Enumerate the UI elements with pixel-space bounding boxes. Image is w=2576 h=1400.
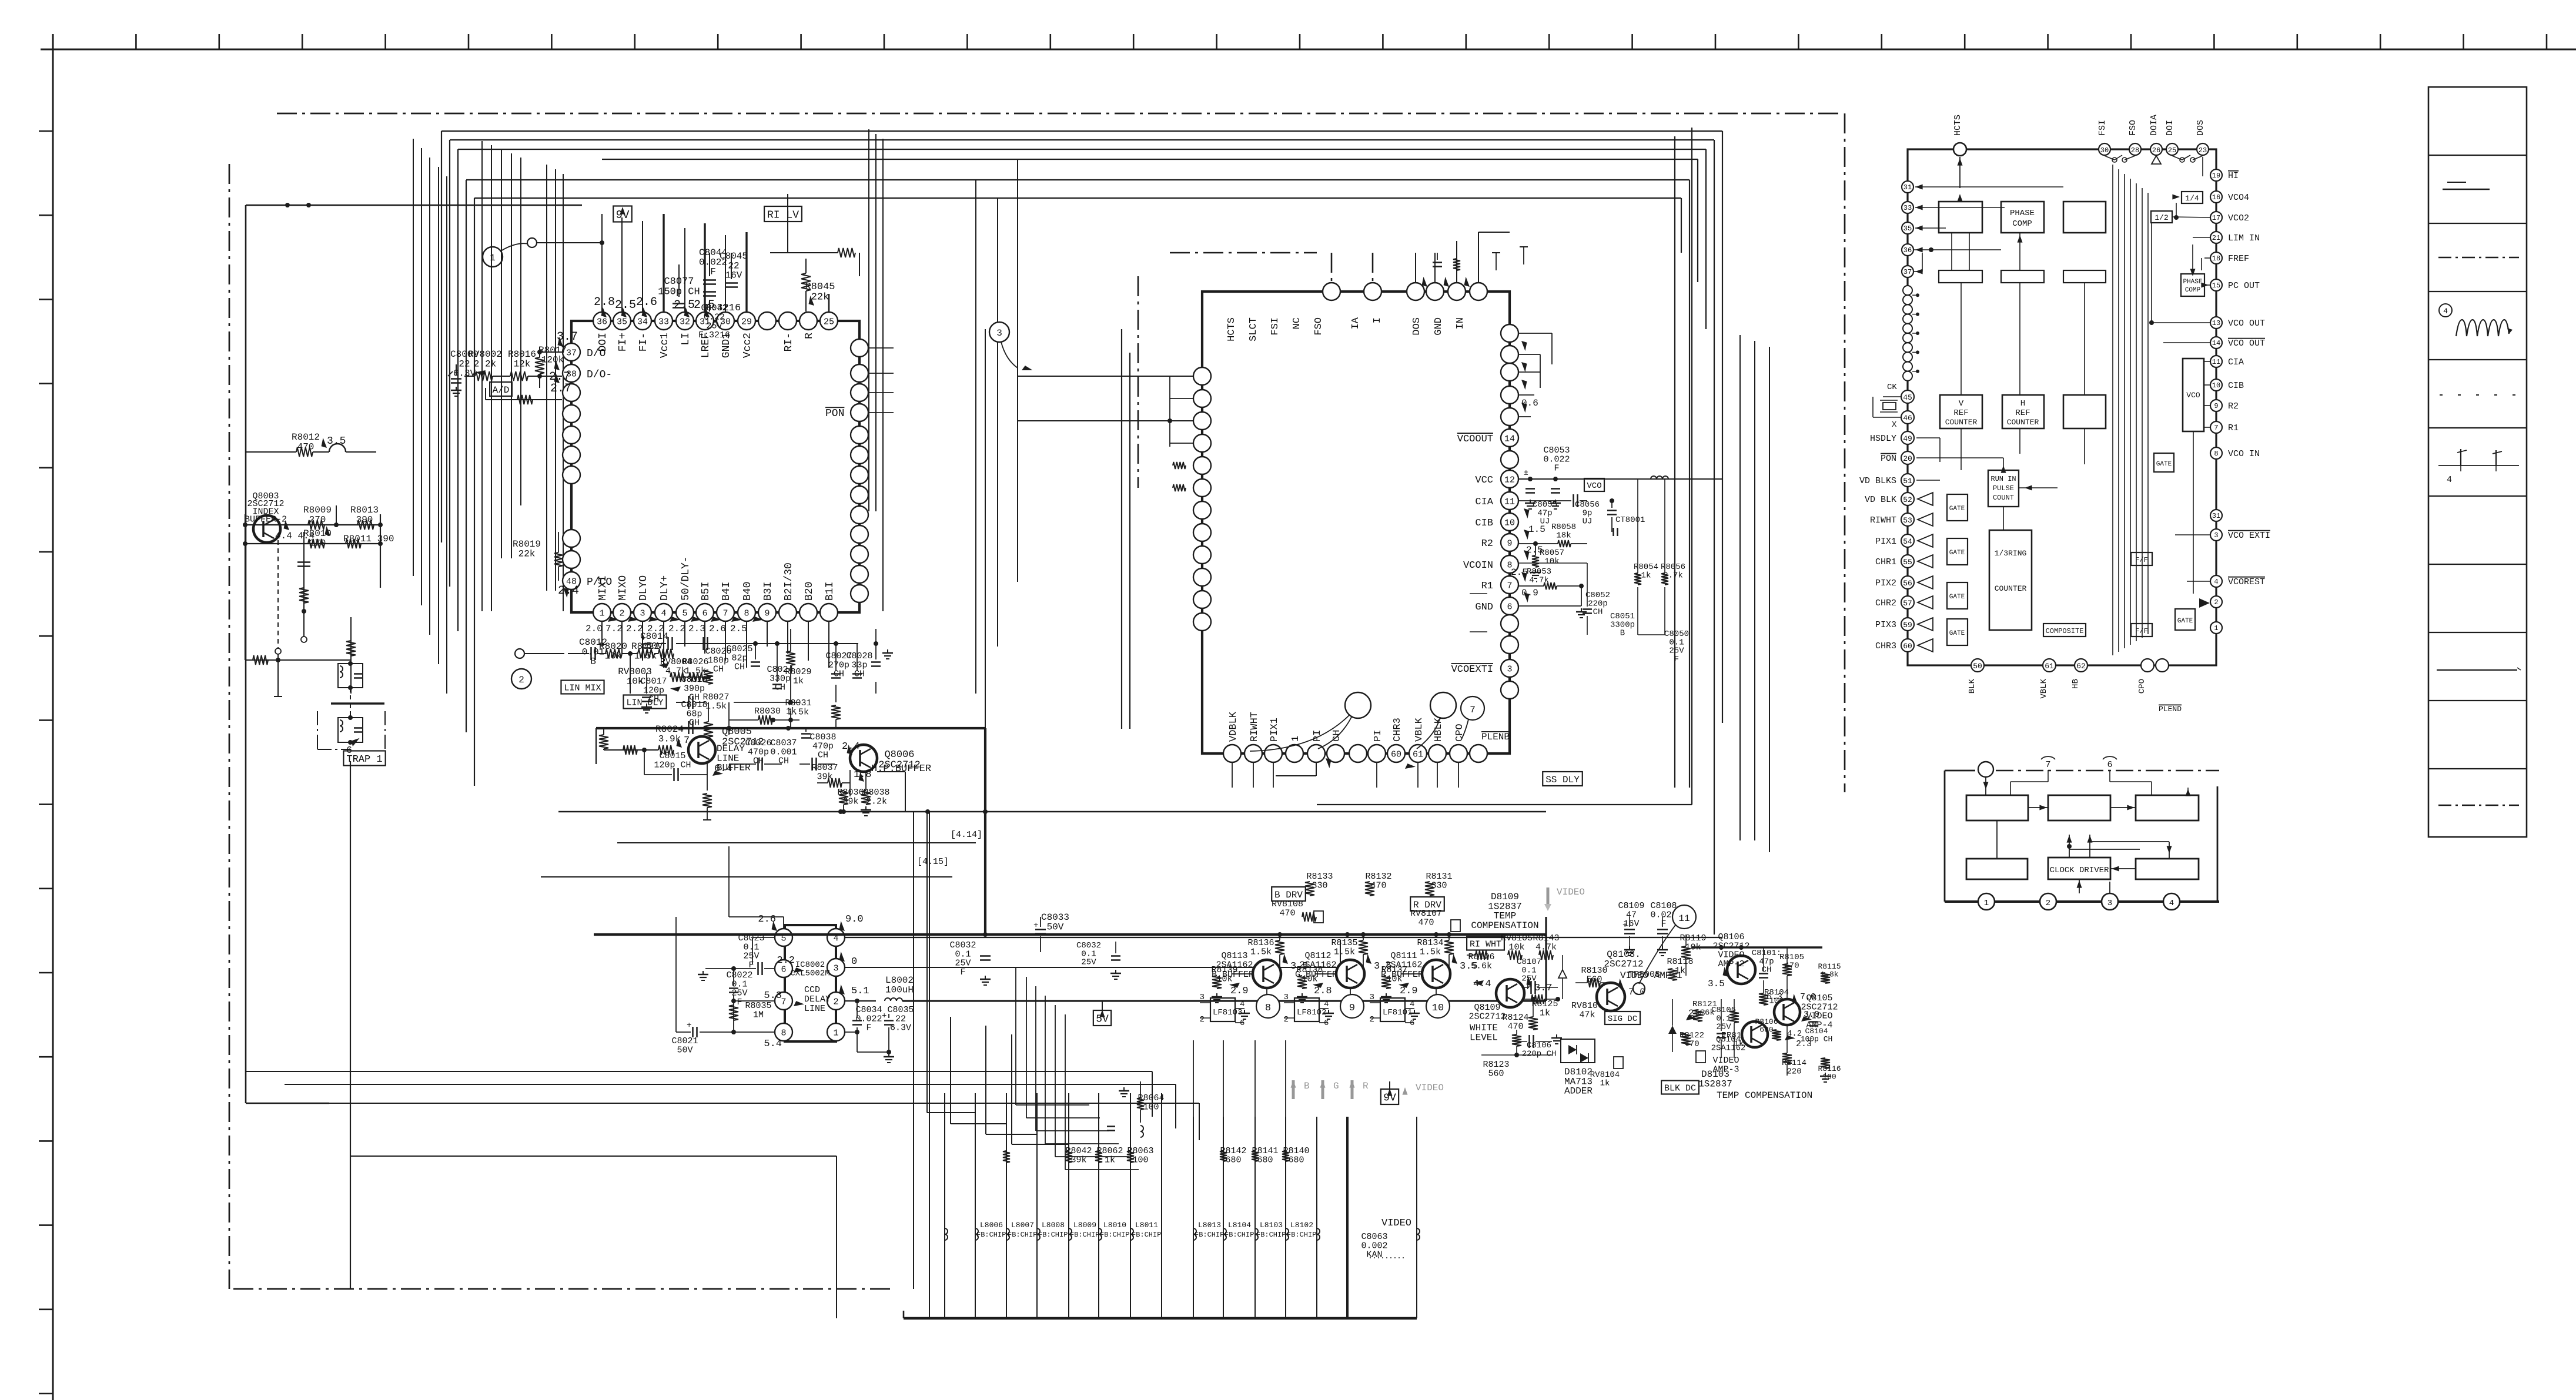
wire mid vertical bundle [976, 159, 1018, 728]
svg-text:PLEND: PLEND [2159, 705, 2182, 714]
svg-text:RIWHT: RIWHT [1870, 515, 1896, 525]
svg-text:21: 21 [2212, 234, 2220, 242]
svg-text:10k: 10k [1544, 557, 1559, 566]
svg-text:6: 6 [1240, 1019, 1244, 1028]
svg-text:L8010: L8010 [1103, 1221, 1126, 1230]
connector 1 circle [483, 238, 604, 267]
resistor R8121 [1692, 1000, 1717, 1021]
capacitor C8062 [1076, 941, 1121, 979]
svg-text:7: 7 [722, 609, 728, 619]
svg-text:Vcc1: Vcc1 [659, 333, 671, 358]
svg-text:R2: R2 [1481, 538, 1493, 550]
svg-text:7: 7 [1470, 705, 1476, 715]
svg-text:COUNTER: COUNTER [2007, 418, 2039, 427]
filter LF8101 [1370, 993, 1420, 1028]
svg-text:33: 33 [658, 317, 669, 327]
svg-text:13: 13 [2212, 319, 2220, 327]
svg-text:23: 23 [2199, 146, 2207, 155]
svg-text:VDBLK: VDBLK [1228, 711, 1239, 742]
svg-text:GATE: GATE [1949, 505, 1965, 513]
IC U8001 bottom pin labels [597, 556, 836, 601]
transistor Q8005 [688, 736, 715, 763]
resistor R8139 [1211, 965, 1237, 1003]
svg-text:8: 8 [781, 1029, 786, 1039]
svg-text:PLENB: PLENB [1481, 732, 1510, 742]
svg-text:30: 30 [2100, 146, 2109, 155]
capacitor C8024 [767, 644, 793, 693]
label B DRV [1272, 887, 1323, 923]
resistor R8130 [1575, 966, 1614, 987]
svg-text:47k: 47k [1579, 1010, 1595, 1020]
svg-text:120k: 120k [541, 354, 564, 365]
label 5V mid [1093, 1001, 1111, 1026]
block COMPOSITE [2043, 624, 2086, 637]
wire mid connects [976, 647, 1202, 694]
svg-text:GATE: GATE [2177, 618, 2193, 625]
resistor R8045 [801, 259, 835, 312]
svg-text:G: G [1333, 1081, 1339, 1091]
transistor Q8109 [1473, 976, 1553, 1007]
wire extra right of IC1 [869, 129, 883, 611]
resistor R8119 [1680, 933, 1706, 976]
block FF2 [2131, 624, 2152, 637]
svg-text:53: 53 [1903, 516, 1912, 525]
svg-text:PC OUT: PC OUT [2228, 281, 2260, 291]
IC U8002 top pin labels [1226, 317, 1466, 341]
capacitor C8038 [799, 728, 837, 771]
svg-text:R1: R1 [2228, 423, 2239, 433]
svg-text:VBLK: VBLK [1414, 717, 1425, 742]
resistor R8053b [1518, 567, 1587, 618]
wire Q8003 rails [243, 505, 383, 660]
transistor Q8003 [253, 515, 280, 542]
resistor R8020 [599, 641, 627, 661]
svg-text:3: 3 [2107, 899, 2112, 908]
svg-text:VCO: VCO [2186, 391, 2200, 400]
svg-text:RUN IN: RUN IN [1990, 475, 2016, 483]
svg-text:8: 8 [744, 609, 749, 619]
blockdiag pin HCTS [1953, 115, 1966, 188]
svg-text:4: 4 [1240, 1000, 1244, 1009]
resistor R8063 [1127, 1146, 1154, 1165]
svg-text:TEMP COMPENSATION: TEMP COMPENSATION [1717, 1090, 1812, 1101]
svg-text:12: 12 [1504, 475, 1515, 485]
svg-text:2: 2 [1284, 1015, 1289, 1024]
svg-text:FB:CHIP: FB:CHIP [1195, 1231, 1224, 1239]
capacitor C8026 [729, 738, 782, 771]
svg-text:CHR3: CHR3 [1392, 718, 1403, 742]
clockdiag box TR [2136, 795, 2199, 820]
svg-text:CHR2: CHR2 [1875, 598, 1896, 608]
transistor Q8104b [1711, 1021, 1768, 1074]
svg-text:C8045: C8045 [720, 251, 748, 262]
IC8002 pins left [775, 929, 792, 1041]
svg-text:4: 4 [2214, 578, 2218, 586]
svg-text:F:3216: F:3216 [698, 330, 730, 340]
svg-text:B40: B40 [742, 582, 754, 601]
resistor R8061 area [1003, 1087, 1129, 1163]
svg-text:VCO EXTI: VCO EXTI [2228, 531, 2270, 541]
svg-text:+: + [641, 634, 646, 644]
resistor R8024 [655, 724, 702, 755]
svg-text:22: 22 [728, 260, 739, 271]
resistor R8131 [1425, 872, 1453, 896]
svg-text:7.0: 7.0 [1628, 987, 1645, 997]
svg-text:2.6: 2.6 [636, 296, 657, 309]
label VCO box [1584, 478, 1604, 491]
svg-text:1.5k: 1.5k [1334, 947, 1355, 957]
svg-text:VD BLKS: VD BLKS [1859, 476, 1896, 486]
svg-text:2.5: 2.5 [615, 299, 636, 312]
blockdiag input triangles [1918, 493, 1933, 652]
resistor R8009 [303, 505, 332, 530]
svg-text:VD BLK: VD BLK [1865, 495, 1896, 505]
capacitor C8018 [676, 700, 708, 734]
clockdiag box BR [2136, 859, 2199, 879]
label R DRV [1410, 897, 1460, 932]
clockdiag bottom connectors [1978, 893, 2180, 910]
svg-text:WHITE: WHITE [1470, 1023, 1498, 1033]
faded VIDEO arrow top [1544, 887, 1585, 911]
capacitor C8107 [1505, 955, 1567, 999]
svg-text:2SC2712: 2SC2712 [1604, 959, 1643, 969]
svg-text:UJ: UJ [1540, 517, 1550, 527]
svg-text:3: 3 [1370, 993, 1374, 1002]
faded VIDEO arrows [1291, 1080, 1444, 1099]
IC U8001 left pins 37-48 [563, 343, 580, 590]
svg-text:RIWHT: RIWHT [1249, 712, 1260, 742]
svg-text:39k: 39k [817, 772, 832, 782]
svg-text:FSO: FSO [1313, 317, 1324, 336]
svg-text:NC: NC [1292, 317, 1303, 329]
blockdiag bottom pins [1968, 659, 2182, 714]
IC U8002 top wires [1416, 232, 1528, 289]
svg-text:FB:CHIP: FB:CHIP [1225, 1231, 1254, 1239]
IC U8002 right voltages [1511, 398, 1545, 598]
wire IC U8001 bottom pin drops [602, 622, 829, 668]
svg-text:R: R [804, 333, 815, 339]
svg-text:45: 45 [1903, 393, 1912, 402]
svg-text:4.4 4.4: 4.4 4.4 [275, 531, 315, 541]
svg-text:6: 6 [781, 965, 786, 975]
svg-text:2.6: 2.6 [709, 624, 726, 634]
block V REF COUNTER [1940, 395, 1982, 428]
label Q8108 [1604, 949, 1682, 981]
svg-text:FI+: FI+ [617, 333, 629, 351]
svg-text:2.8: 2.8 [594, 296, 615, 309]
capacitor C8077 [658, 264, 700, 308]
svg-text:36: 36 [1903, 246, 1912, 254]
svg-text:25: 25 [2168, 146, 2176, 155]
svg-text:F: F [710, 267, 716, 277]
svg-text:±: ± [1524, 468, 1528, 477]
svg-text:8: 8 [2214, 450, 2218, 458]
capacitor C8055 [1518, 494, 1587, 527]
svg-text:3.5: 3.5 [327, 436, 346, 447]
svg-text:COMPENSATION: COMPENSATION [1471, 920, 1538, 931]
svg-text:9: 9 [2214, 402, 2218, 410]
svg-text:AMP-2: AMP-2 [1718, 959, 1744, 969]
label Q8003 [245, 491, 287, 525]
diode D8102 [1561, 1039, 1595, 1097]
resistor R8027 [702, 692, 729, 737]
svg-text:50/DLY-: 50/DLY- [680, 556, 692, 601]
blockdiag left pins 31-37 [1902, 181, 1923, 277]
wire between ICs verticals [1122, 329, 1130, 729]
svg-text:2: 2 [518, 675, 524, 685]
block register bars [1939, 270, 2106, 283]
svg-text:DELAY: DELAY [717, 743, 745, 754]
capacitor C8023 [738, 933, 775, 970]
svg-text:CH: CH [713, 665, 724, 675]
wire IC U8001 top pin drops [602, 214, 747, 312]
svg-text:LINE: LINE [717, 753, 739, 763]
svg-text:6: 6 [1410, 1019, 1414, 1028]
svg-text:COMP: COMP [2185, 287, 2201, 294]
svg-text:B2I/30: B2I/30 [783, 562, 795, 601]
blockdiag right pins [2210, 169, 2270, 634]
svg-text:CIA: CIA [2228, 357, 2244, 367]
svg-text:2: 2 [1200, 1015, 1205, 1024]
label DELAY LINE BUFFER [717, 743, 751, 773]
connector 3 circle [989, 322, 1032, 375]
svg-text:HCTS: HCTS [1953, 115, 1963, 136]
capacitor C8035 [882, 1005, 914, 1063]
svg-text:GATE: GATE [1949, 594, 1965, 601]
module boundary dash-dot right [1844, 113, 1846, 792]
svg-text:7: 7 [2214, 424, 2218, 432]
resistor R8058 [1518, 523, 1587, 547]
wire IC1 pin25 up [829, 294, 859, 312]
block 1/3RING COUNTER [1989, 530, 2032, 630]
block unnamed C [2063, 395, 2106, 428]
resistor R8012 [245, 432, 376, 457]
capacitor C8105 [1711, 999, 1736, 1058]
resistor R8104 [1764, 988, 1796, 1009]
svg-text:SIG DC: SIG DC [1608, 1014, 1637, 1024]
capacitor C8104 [1801, 1022, 1833, 1044]
svg-text:FB:CHIP: FB:CHIP [1100, 1231, 1129, 1239]
clockdiag wires [1997, 805, 2172, 894]
label 4.4 4.4 [275, 520, 334, 541]
capacitor C8053 [1518, 446, 1722, 509]
svg-text:MIXI: MIXI [597, 575, 609, 601]
separator line [331, 702, 384, 704]
IC U8002 body [1202, 292, 1510, 753]
pot RV8003 [618, 649, 674, 686]
svg-text:0.6: 0.6 [1521, 398, 1538, 408]
svg-text:L8104: L8104 [1228, 1221, 1251, 1230]
svg-text:1: 1 [490, 253, 496, 263]
svg-text:4.7k: 4.7k [1535, 942, 1557, 952]
wire 4.15 line [541, 876, 952, 877]
resistor R8105 [1779, 947, 1804, 999]
svg-text:14: 14 [2212, 339, 2220, 347]
wire IC8002 pin1 [845, 1030, 889, 1052]
clockdiag circle in [1978, 762, 1993, 795]
wire IC8002 pin5 up [729, 846, 784, 929]
svg-text:CK: CK [1887, 383, 1897, 392]
svg-text:1.5k: 1.5k [1250, 947, 1272, 957]
svg-text:TEMP: TEMP [1494, 911, 1516, 922]
IC U8001 body [571, 321, 859, 612]
svg-text:R8024: R8024 [655, 724, 684, 735]
label 3.5 7.0 [1708, 967, 1748, 989]
resistor R8057 [1530, 541, 1564, 578]
svg-text:COUNT: COUNT [1993, 494, 2014, 502]
svg-text:3: 3 [833, 964, 838, 974]
svg-text:12k: 12k [514, 359, 531, 369]
capacitor C8022 [698, 962, 775, 1032]
IC U8002 bottom callout curves [1250, 692, 1484, 751]
svg-text:2.2: 2.2 [777, 955, 795, 966]
svg-text:PI: PI [1312, 730, 1323, 742]
svg-text:VCO IN: VCO IN [2228, 449, 2260, 459]
svg-text:220: 220 [1787, 1067, 1801, 1076]
svg-text:FB:CHIP: FB:CHIP [1132, 1231, 1161, 1239]
svg-text:46: 46 [1903, 414, 1912, 423]
svg-text:CT8001: CT8001 [1615, 515, 1645, 525]
block unnamed A [1939, 202, 1982, 233]
svg-text:680: 680 [1759, 1025, 1773, 1034]
legend row3 sample [2438, 257, 2519, 259]
svg-text:FSI: FSI [2097, 120, 2107, 136]
svg-text:2.3: 2.3 [688, 624, 705, 634]
block PHASE COMP small [2181, 274, 2204, 296]
label SIG DC [1605, 1012, 1640, 1024]
svg-text:X: X [1892, 420, 1897, 430]
svg-text:4: 4 [1410, 1000, 1414, 1009]
svg-text:VCO OUT: VCO OUT [2228, 339, 2265, 349]
svg-text:6: 6 [702, 609, 707, 619]
wire IC1 right stubs [869, 348, 894, 413]
svg-text:CIB: CIB [1475, 518, 1493, 529]
wire FB-chip verticals [945, 1093, 1417, 1318]
test point TP8008 [1628, 970, 1660, 994]
svg-text:18k: 18k [1556, 531, 1571, 540]
resistor R8064 [1137, 1081, 1165, 1137]
svg-text:F: F [960, 967, 965, 977]
svg-text:5.3: 5.3 [764, 990, 782, 1002]
svg-text:SS DLY: SS DLY [1545, 775, 1580, 785]
capacitor C8044 [699, 247, 727, 284]
resistor R8118 [1667, 957, 1693, 980]
wire thick vertical x2630 [1545, 917, 1547, 1001]
resistor R8123 [1481, 1055, 1552, 1079]
svg-text:LI: LI [680, 333, 692, 346]
svg-text:L8011: L8011 [1135, 1221, 1158, 1230]
svg-text:2.5: 2.5 [730, 624, 747, 634]
block GATE right [2175, 609, 2195, 630]
svg-text:8: 8 [1265, 1003, 1271, 1014]
capacitor C8032 [949, 940, 991, 985]
svg-text:4: 4 [1324, 1000, 1329, 1009]
svg-text:I: I [1372, 317, 1383, 323]
svg-text:B1I: B1I [824, 582, 836, 601]
capacitor C8045 [720, 251, 748, 287]
block PHASE COMP [2001, 202, 2044, 233]
clockdiag box BL [1966, 859, 2028, 879]
svg-text:PI: PI [1373, 730, 1384, 742]
svg-text:56: 56 [1903, 579, 1912, 588]
label 9V supply [613, 206, 632, 222]
IC U8002 bottom pin labels [1228, 711, 1510, 742]
svg-text:2.5: 2.5 [1511, 567, 1528, 578]
svg-text:50V: 50V [1047, 922, 1064, 932]
svg-text:PON: PON [825, 408, 844, 420]
capacitor C8015 [644, 750, 707, 791]
resistor R8016 [508, 349, 536, 381]
svg-text:R1: R1 [1481, 581, 1493, 592]
svg-text:2.9: 2.9 [1230, 986, 1249, 997]
svg-text:31: 31 [1903, 183, 1912, 192]
wire trap down [350, 761, 351, 1289]
resistor R8136 [1247, 932, 1284, 965]
wire IC8002 pin4 [845, 937, 1722, 938]
pot RV8004 [660, 657, 692, 694]
svg-text:28: 28 [2131, 146, 2139, 155]
svg-text:2.7: 2.7 [550, 382, 571, 396]
svg-text:COMP: COMP [2012, 219, 2032, 229]
svg-text:120p CH: 120p CH [654, 760, 691, 770]
svg-text:R8012: R8012 [292, 432, 320, 443]
svg-text:5.4: 5.4 [764, 1039, 782, 1050]
svg-text:9: 9 [1349, 1003, 1355, 1014]
svg-text:1k: 1k [1600, 1079, 1610, 1088]
blockdiag left pin column [1903, 286, 1919, 381]
label Q8109 [1468, 1003, 1506, 1043]
svg-text:R2: R2 [2228, 401, 2239, 411]
svg-text:B3I: B3I [762, 582, 774, 601]
svg-text:DOI: DOI [2165, 120, 2175, 136]
block GATE column [1947, 494, 1968, 645]
svg-text:LF8102: LF8102 [1297, 1008, 1326, 1017]
svg-text:6: 6 [1507, 602, 1512, 612]
IC U8002 left wires [1167, 376, 1193, 491]
module boundary dash-dot bottom [233, 1288, 894, 1290]
resistor R8124 [1502, 997, 1538, 1031]
blockdiag left pins 49-60 [1859, 431, 1914, 652]
svg-text:C8033: C8033 [1041, 912, 1069, 923]
svg-text:R8009: R8009 [303, 505, 332, 515]
svg-text:VBLK: VBLK [2039, 678, 2049, 698]
svg-text:57: 57 [1903, 599, 1912, 608]
connector 11 [1639, 905, 1696, 984]
svg-text:10: 10 [1432, 1003, 1444, 1014]
IC U8002 bottom pins [1223, 745, 1487, 762]
resistor R8021 [622, 641, 660, 694]
svg-text:2SA1162: 2SA1162 [1711, 1043, 1746, 1053]
clockdiag arrow up right [2186, 788, 2191, 796]
svg-text:DELAY: DELAY [804, 994, 831, 1004]
wire IC8002 pin8 row [671, 917, 775, 1055]
resistor R8056b [1661, 479, 1685, 635]
resistor R8135 [1331, 932, 1368, 965]
resistor R8010 [303, 528, 332, 548]
svg-text:2.2k: 2.2k [474, 359, 496, 369]
svg-text:9.0: 9.0 [845, 914, 864, 925]
svg-text:R8020: R8020 [599, 641, 627, 652]
svg-text:49: 49 [1903, 434, 1912, 443]
svg-text:DLYO: DLYO [638, 575, 650, 601]
svg-text:F/F: F/F [2135, 627, 2148, 635]
resistor R8013 [350, 505, 379, 530]
svg-text:2: 2 [2214, 598, 2218, 607]
svg-text:L8006: L8006 [980, 1221, 1003, 1230]
svg-text:L8013: L8013 [1198, 1221, 1221, 1230]
wire staircase right [914, 812, 1069, 1289]
svg-text:470: 470 [1279, 908, 1295, 918]
